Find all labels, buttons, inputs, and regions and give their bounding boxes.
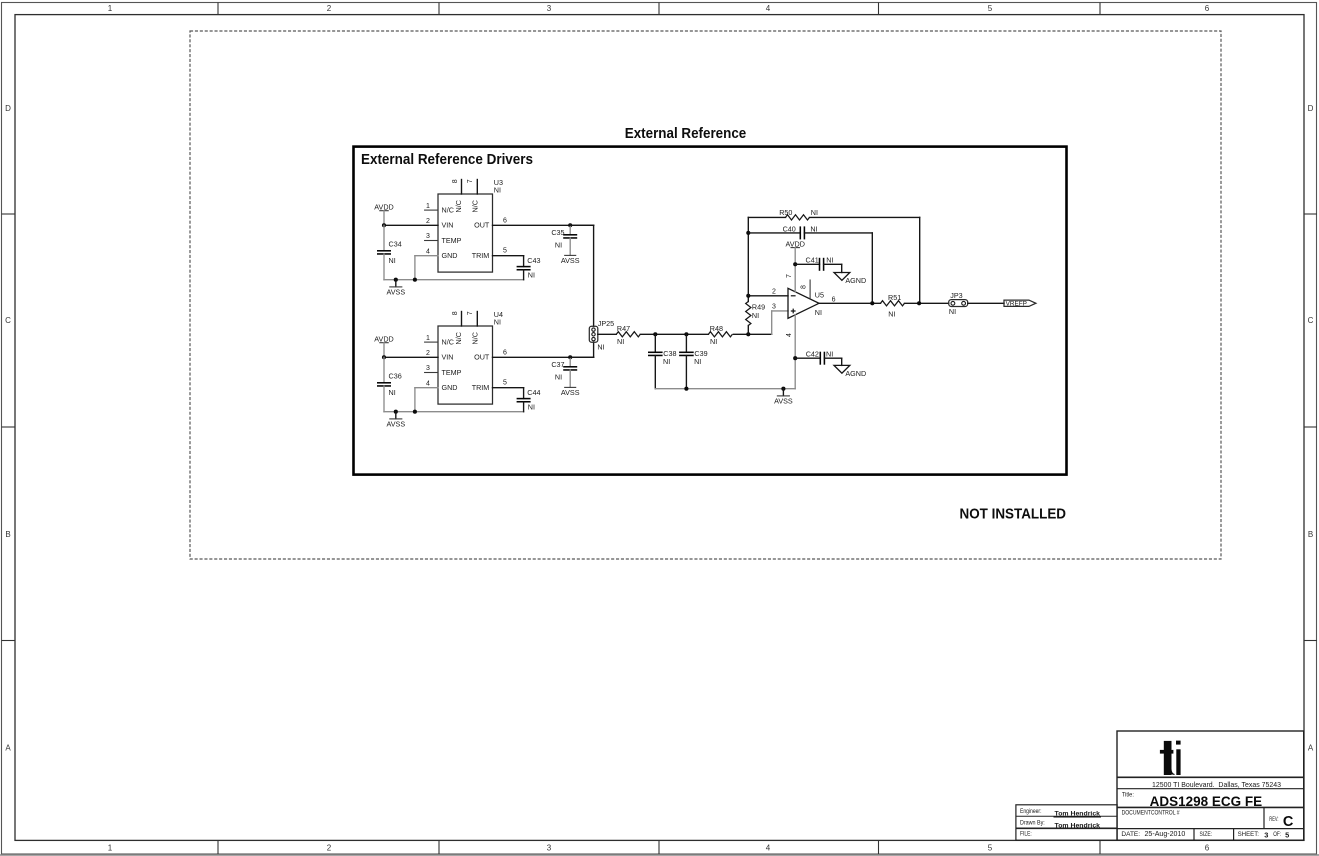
svg-text:NI: NI	[815, 308, 822, 317]
svg-text:TEMP: TEMP	[442, 368, 462, 377]
svg-text:C: C	[5, 316, 11, 325]
ground AVSS	[386, 412, 405, 429]
capacitor C37	[551, 357, 577, 387]
svg-text:DATE:: DATE:	[1121, 831, 1140, 838]
svg-text:NOT INSTALLED: NOT INSTALLED	[960, 506, 1067, 523]
svg-text:1: 1	[426, 203, 430, 210]
svg-text:NI: NI	[826, 349, 833, 358]
U4 pin 7 stub	[467, 311, 477, 326]
svg-text:JP3: JP3	[950, 291, 962, 300]
junction	[781, 387, 785, 391]
svg-text:NI: NI	[888, 309, 895, 318]
svg-text:N/C: N/C	[442, 338, 454, 347]
svg-text:AGND: AGND	[845, 369, 866, 378]
svg-text:NI: NI	[694, 357, 701, 366]
svg-text:AVSS: AVSS	[561, 388, 580, 397]
jumper JP25	[589, 319, 614, 352]
U4 pin 8 stub	[452, 311, 462, 326]
svg-text:1: 1	[108, 4, 113, 13]
svg-text:C37: C37	[551, 360, 564, 369]
capacitor C35	[551, 225, 577, 255]
svg-text:R48: R48	[710, 324, 723, 333]
svg-text:4: 4	[786, 333, 793, 337]
svg-text:3: 3	[1264, 831, 1268, 840]
wire AVDD to U3 VIN pin 2	[384, 218, 438, 225]
U5 pin 8 stub	[800, 280, 810, 299]
svg-text:R47: R47	[617, 324, 630, 333]
TI logo	[1160, 741, 1181, 775]
svg-text:N/C: N/C	[454, 332, 463, 344]
capacitor C43	[517, 256, 541, 280]
capacitor C42	[795, 349, 842, 365]
svg-text:N/C: N/C	[470, 200, 479, 212]
svg-text:DOCUMENTCONTROL #: DOCUMENTCONTROL #	[1122, 810, 1180, 817]
U4 pin 3 stub	[425, 365, 438, 372]
engineer block	[1016, 805, 1117, 840]
wire U3 OUT pin 6	[493, 217, 594, 225]
net flag VREFP	[1004, 300, 1036, 308]
svg-text:R50: R50	[779, 208, 792, 217]
svg-text:B: B	[1308, 530, 1313, 539]
title block	[1117, 731, 1304, 840]
svg-text:NI: NI	[494, 186, 501, 195]
svg-text:GND: GND	[442, 383, 458, 392]
U3 pin 8 stub	[452, 179, 462, 194]
svg-text:VIN: VIN	[442, 353, 454, 362]
resistor R47	[616, 324, 640, 346]
svg-text:1: 1	[108, 844, 113, 853]
wire R48 to op-amp input node	[733, 333, 771, 335]
block External Reference Drivers	[354, 147, 1067, 475]
junction	[917, 301, 921, 305]
svg-text:6: 6	[832, 297, 836, 304]
svg-text:N/C: N/C	[442, 206, 454, 215]
svg-text:NI: NI	[949, 307, 956, 316]
power AVDD	[785, 240, 804, 292]
svg-text:ADS1298 ECG FE: ADS1298 ECG FE	[1150, 794, 1263, 809]
svg-text:2: 2	[772, 288, 776, 295]
wire U4 GND pin 4	[415, 380, 438, 411]
junction	[413, 410, 417, 414]
svg-text:C35: C35	[551, 228, 564, 237]
svg-text:U5: U5	[815, 290, 824, 299]
voltage reference U4	[438, 310, 503, 404]
junction	[394, 278, 398, 282]
svg-text:2: 2	[426, 350, 430, 357]
svg-text:AVSS: AVSS	[774, 397, 793, 406]
wire U3 TRIM pin 5	[493, 248, 524, 267]
jumper JP3	[949, 291, 968, 316]
svg-text:AVSS: AVSS	[386, 420, 405, 429]
wire JP25 to R47	[598, 333, 617, 335]
resistor R51	[881, 293, 949, 319]
svg-text:25-Aug-2010: 25-Aug-2010	[1145, 829, 1186, 838]
junction	[684, 387, 688, 391]
wire feedback right leg	[919, 217, 921, 303]
svg-text:D: D	[5, 104, 11, 113]
svg-text:2: 2	[327, 844, 332, 853]
svg-text:D: D	[1308, 104, 1314, 113]
title text	[1122, 791, 1262, 809]
svg-text:NI: NI	[494, 318, 501, 327]
junction	[746, 332, 750, 336]
ground AVSS	[561, 387, 580, 397]
ground AVSS	[561, 255, 580, 265]
revision	[1269, 814, 1294, 830]
svg-text:6: 6	[1205, 4, 1210, 13]
wire feedback left leg	[747, 217, 749, 295]
svg-text:AGND: AGND	[845, 276, 866, 285]
svg-text:7: 7	[467, 179, 474, 183]
op-amp U5	[788, 288, 824, 318]
svg-text:B: B	[5, 530, 10, 539]
svg-text:5: 5	[503, 248, 507, 255]
svg-text:3: 3	[426, 233, 430, 240]
svg-text:NI: NI	[811, 208, 818, 217]
date size sheet row	[1121, 829, 1289, 840]
svg-text:A: A	[5, 743, 11, 752]
svg-text:JP25: JP25	[598, 319, 614, 328]
svg-text:NI: NI	[810, 225, 817, 234]
wire op-amp pin 4 to rail	[786, 315, 795, 389]
svg-text:SHEET:: SHEET:	[1238, 831, 1260, 838]
svg-text:4: 4	[766, 844, 771, 853]
svg-text:C: C	[1283, 814, 1294, 830]
junction	[793, 356, 797, 360]
svg-text:6: 6	[503, 217, 507, 224]
svg-text:C44: C44	[527, 388, 540, 397]
svg-text:NI: NI	[597, 342, 604, 351]
svg-text:NI: NI	[826, 255, 833, 264]
wire to op-amp pin 3	[772, 303, 788, 334]
capacitor C39	[679, 334, 707, 388]
svg-text:N/C: N/C	[470, 332, 479, 344]
address	[1152, 780, 1281, 789]
svg-text:NI: NI	[555, 240, 562, 249]
U3 pin 3 stub	[425, 233, 438, 240]
junction	[382, 355, 386, 359]
wire op-amp output pin 6	[819, 297, 881, 304]
resistor R48	[708, 324, 732, 346]
svg-text:3: 3	[547, 844, 552, 853]
svg-text:NI: NI	[555, 372, 562, 381]
svg-text:C41: C41	[806, 255, 819, 264]
svg-text:TRIM: TRIM	[472, 251, 490, 260]
U3 pin 1 stub	[425, 203, 438, 210]
svg-text:5: 5	[1285, 831, 1289, 840]
svg-text:NI: NI	[528, 271, 535, 280]
svg-text:6: 6	[1205, 844, 1210, 853]
capacitor C34	[377, 225, 402, 279]
svg-text:C40: C40	[783, 225, 796, 234]
voltage reference U3	[438, 178, 503, 272]
wire AVDD to U4 VIN pin 2	[384, 350, 438, 357]
junction	[746, 294, 750, 298]
svg-text:FILE:: FILE:	[1020, 831, 1032, 838]
svg-text:C42: C42	[806, 349, 819, 358]
resistor R50	[748, 208, 919, 220]
svg-text:5: 5	[988, 4, 993, 13]
svg-text:C34: C34	[389, 239, 402, 248]
ground AGND	[834, 273, 866, 286]
U4 pin 1 stub	[425, 335, 438, 342]
wire U3 ground rail	[384, 279, 524, 281]
power AVDD	[374, 203, 393, 226]
svg-text:5: 5	[988, 844, 993, 853]
wire U4 OUT to JP25	[570, 342, 593, 357]
svg-text:3: 3	[772, 303, 776, 310]
capacitor C40	[748, 225, 872, 304]
svg-text:R49: R49	[752, 302, 765, 311]
svg-text:1: 1	[426, 335, 430, 342]
junction	[394, 410, 398, 414]
svg-text:AVSS: AVSS	[561, 256, 580, 265]
svg-text:TRIM: TRIM	[472, 383, 490, 392]
junction	[653, 332, 657, 336]
svg-text:8: 8	[452, 311, 459, 315]
svg-text:Tom Hendrick: Tom Hendrick	[1055, 822, 1101, 829]
junction	[870, 301, 874, 305]
svg-text:2: 2	[426, 218, 430, 225]
svg-text:AVSS: AVSS	[386, 288, 405, 297]
svg-text:VREFP: VREFP	[1006, 301, 1027, 308]
document control	[1122, 810, 1180, 817]
junction	[568, 355, 572, 359]
svg-text:External Reference: External Reference	[625, 125, 747, 142]
svg-text:NI: NI	[710, 337, 717, 346]
svg-text:OF:: OF:	[1273, 831, 1281, 838]
junction	[684, 332, 688, 336]
svg-text:Engineer:: Engineer:	[1020, 808, 1042, 815]
svg-text:4: 4	[426, 248, 430, 255]
power AVDD	[374, 335, 393, 358]
capacitor C36	[377, 357, 402, 411]
svg-text:OUT: OUT	[474, 353, 490, 362]
svg-text:NI: NI	[389, 256, 396, 265]
wire op-amp pin 2	[748, 288, 788, 296]
wire U4 OUT pin 6	[493, 349, 594, 357]
svg-text:3: 3	[547, 4, 552, 13]
svg-text:6: 6	[503, 349, 507, 356]
wire U3 GND pin 4	[415, 248, 438, 279]
junction	[382, 223, 386, 227]
junction	[568, 223, 572, 227]
svg-text:GND: GND	[442, 251, 458, 260]
svg-text:NI: NI	[528, 403, 535, 412]
svg-text:C: C	[1308, 316, 1314, 325]
svg-text:NI: NI	[389, 388, 396, 397]
svg-text:OUT: OUT	[474, 221, 490, 230]
svg-text:REV:: REV:	[1269, 816, 1278, 823]
svg-text:A: A	[1308, 743, 1314, 752]
U3 pin 7 stub	[467, 179, 477, 194]
svg-text:R51: R51	[888, 293, 901, 302]
resistor R49	[746, 296, 765, 335]
svg-text:4: 4	[426, 380, 430, 387]
junction	[746, 231, 750, 235]
svg-text:8: 8	[800, 285, 807, 289]
wire U4 TRIM pin 5	[493, 380, 524, 399]
svg-text:N/C: N/C	[454, 200, 463, 212]
ground AVSS	[386, 280, 405, 297]
svg-text:TEMP: TEMP	[442, 236, 462, 245]
ground AGND	[834, 365, 866, 378]
wire ground rail AVSS	[655, 388, 795, 390]
svg-text:12500 TI Boulevard. Dallas, T: 12500 TI Boulevard. Dallas, Texas 75243	[1152, 780, 1281, 789]
svg-text:SIZE:: SIZE:	[1200, 831, 1213, 838]
capacitor C38	[648, 334, 676, 388]
svg-text:5: 5	[503, 380, 507, 387]
svg-text:NI: NI	[617, 337, 624, 346]
svg-text:External Reference Drivers: External Reference Drivers	[361, 151, 533, 168]
svg-text:7: 7	[786, 274, 793, 278]
junction	[793, 262, 797, 266]
wire U4 ground rail	[384, 411, 524, 413]
wire U3 OUT to JP25	[570, 225, 593, 326]
wire R47 to R48	[640, 333, 708, 335]
svg-text:2: 2	[327, 4, 332, 13]
svg-text:7: 7	[467, 311, 474, 315]
wire JP3 to VREFP	[968, 302, 1004, 304]
svg-text:NI: NI	[663, 357, 670, 366]
svg-text:Drawn By:: Drawn By:	[1020, 819, 1045, 826]
svg-text:C43: C43	[527, 256, 540, 265]
svg-text:VIN: VIN	[442, 221, 454, 230]
junction	[413, 278, 417, 282]
svg-text:NI: NI	[752, 311, 759, 320]
svg-text:3: 3	[426, 365, 430, 372]
capacitor C41	[795, 255, 842, 272]
capacitor C44	[517, 388, 541, 412]
svg-text:C36: C36	[389, 371, 402, 380]
ground AVSS	[774, 389, 793, 406]
svg-text:8: 8	[452, 179, 459, 183]
svg-text:Title:: Title:	[1122, 791, 1134, 798]
svg-text:4: 4	[766, 4, 771, 13]
